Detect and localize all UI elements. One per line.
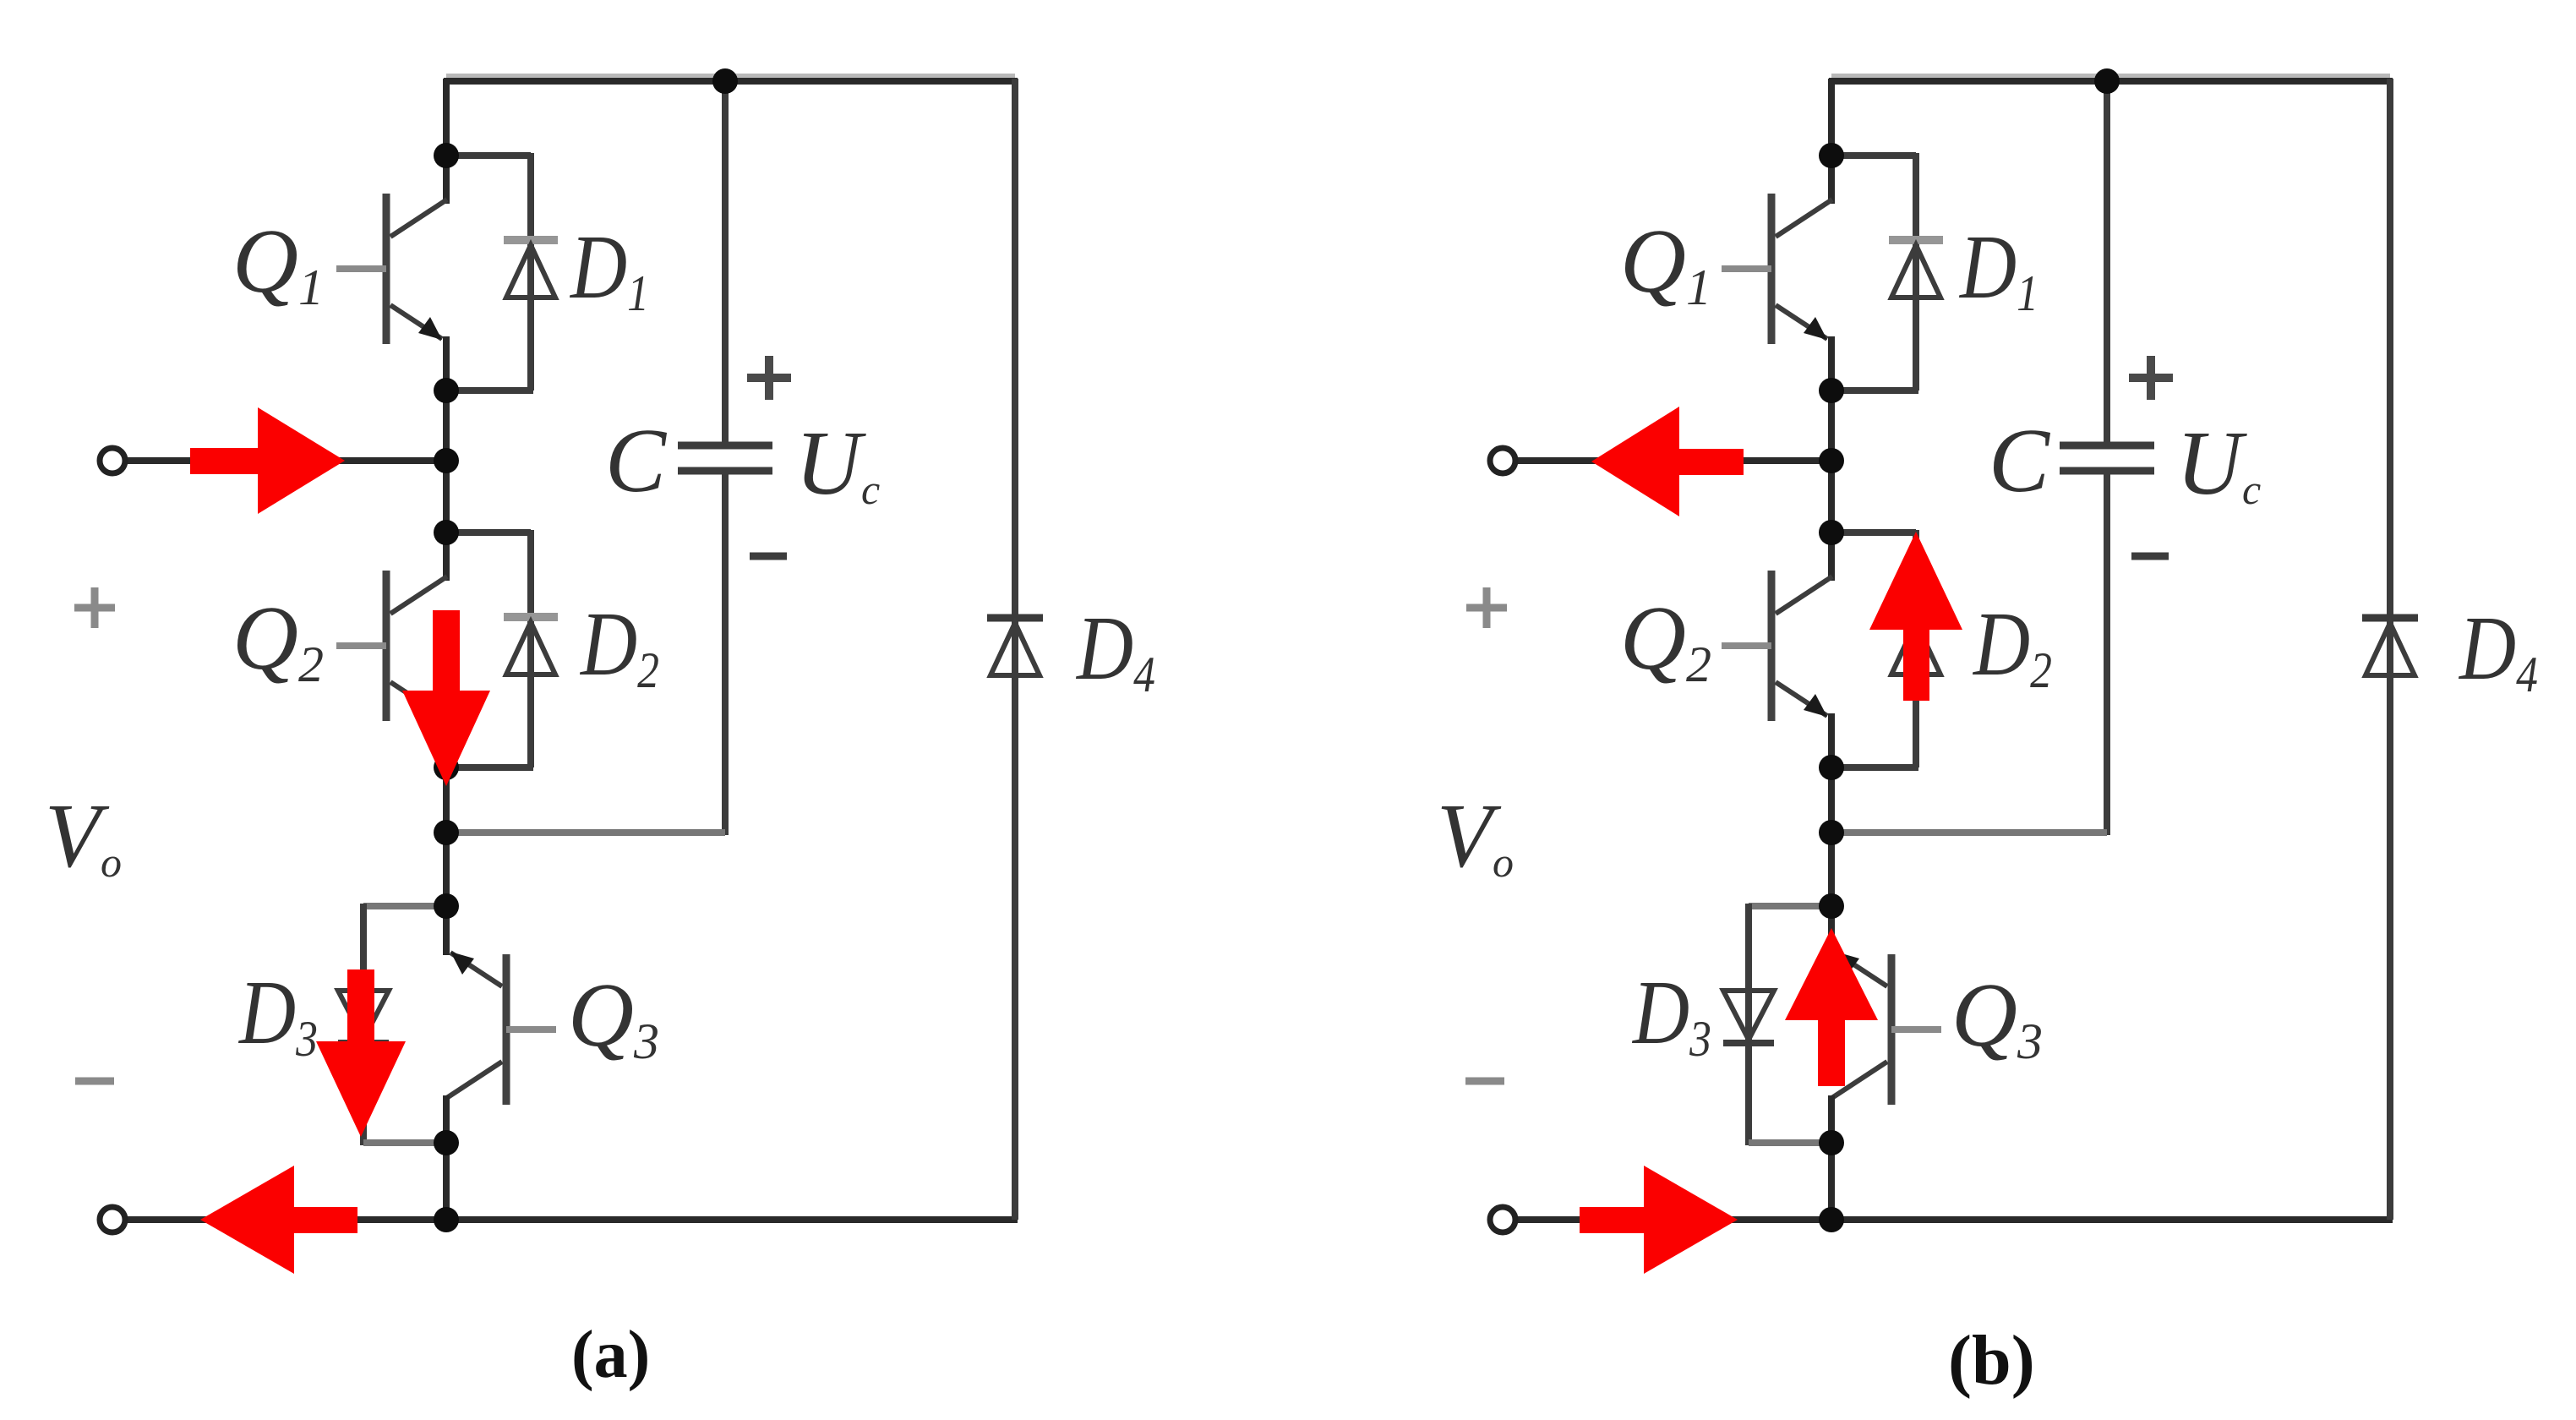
wire D2 bottom stub [446,764,533,771]
current arrow through Q3 (upward) [1785,928,1878,1086]
wire bottom rail [1515,1216,2393,1223]
transistor Q1 emitter slant [390,305,442,340]
transistor Q1 base lead [336,265,386,272]
current arrow input (leftward) [1591,407,1744,516]
wire bottom rail [125,1216,1018,1223]
wire trunk upper [443,79,450,156]
label Uc [795,413,880,514]
wire D1 bottom stub [1831,387,1918,394]
wire trunk capnode-Q3 [443,833,450,906]
wire input lead [1515,457,1831,464]
label C [605,411,668,511]
capacitor minus sign [2131,553,2169,560]
diode D1 symbol [504,240,558,298]
diode D3 symbol [1723,991,1774,1043]
node Q1 collector [434,143,459,168]
wire D3 bottom stub [363,1139,446,1146]
transistor Q2 collector slant [390,576,447,614]
transistor Q2 emitter slant [390,682,442,717]
capacitor minus sign [750,553,787,560]
transistor Q2 base lead [1722,642,1771,649]
svg-text:(b): (b) [1948,1321,2035,1400]
label D1 [569,216,649,321]
transistor Q2 collector slant [1776,576,1832,614]
output plus sign [74,587,115,628]
wire trunk input-Q2 [443,461,450,532]
output terminal [1490,1207,1515,1232]
wire input lead [125,457,446,464]
label Q1 [232,211,324,315]
node Q2 emitter [1819,755,1844,780]
transistor Q2 emitter slant [1776,682,1827,717]
capacitor plus sign [2129,356,2173,400]
node Q2 collector [434,520,459,545]
capacitor C top lead [2104,81,2110,445]
wire D3 bottom stub [1749,1139,1831,1146]
transistor Q1 emitter wire [443,336,450,390]
svg-text:C: C [605,411,668,511]
svg-text:C: C [1989,411,2051,511]
wire trunk Q2-capnode [443,767,450,833]
output plus sign [1466,587,1507,628]
node bottom junction [1819,1207,1844,1232]
capacitor C plates [2060,445,2154,471]
label Vo [45,786,122,887]
wire trunk Q2-capnode [1828,767,1835,833]
caption (a) [571,1318,650,1392]
label Uc [2176,413,2261,514]
wire D2 top stub [446,530,531,767]
label D2 [1972,593,2052,698]
node Q3 collector [434,1130,459,1155]
wire trunk capnode-Q3 [1828,833,1835,906]
wire D3 top stub [363,904,446,1145]
label D4 [2458,597,2538,702]
label D3 [1631,961,1711,1067]
wire D1 top stub [446,153,531,390]
input terminal [1490,448,1515,473]
wire top rail highlight [446,74,1015,79]
transistor Q1 bar [383,194,390,344]
transistor Q3 collector slant [445,1062,502,1099]
transistor Q1 collector wire [443,156,450,204]
wire top rail [1829,78,2393,85]
wire trunk input-Q2 [1828,461,1835,532]
caption (b) [1948,1321,2035,1400]
wire trunk Q1-input [443,390,450,461]
transistor Q3 collector slant [1831,1062,1887,1099]
transistor Q1 collector slant [390,199,447,237]
wire D3 top stub [1749,904,1831,1145]
transistor Q1 base lead [1722,265,1771,272]
diode D4 symbol [987,618,1043,675]
transistor Q1 collector wire [1828,156,1835,204]
diode D4 symbol [2362,618,2418,675]
current arrow through D3 (downward) [316,969,406,1137]
node Q2 collector [1819,520,1844,545]
node Q3 collector [1819,1130,1844,1155]
diode D3 symbol [338,991,389,1043]
transistor Q2 base lead [336,642,386,649]
current arrow output (rightward) [1580,1166,1738,1274]
node Q1 emitter [1819,378,1844,403]
current arrow input (rightward) [190,407,345,514]
wire D4 branch [2387,79,2393,1220]
label Q3 [568,965,659,1069]
transistor Q3 emitter slant [450,952,502,986]
wire capacitor to trunk [446,829,725,836]
label Q3 [1951,965,2043,1069]
label Q2 [232,588,324,692]
node Q3 emitter [434,893,459,919]
wire capacitor to trunk [1831,829,2107,836]
node capacitor bottom junction [434,820,459,845]
transistor Q2 collector wire [1828,532,1835,581]
capacitor plus sign [747,356,791,400]
wire trunk Q3-bottom [1828,1143,1835,1220]
transistor Q1 emitter wire [1828,336,1835,390]
transistor Q2 emitter wire [443,713,450,767]
label C [1989,411,2051,511]
transistor Q3 base lead [506,1026,556,1033]
label D2 [579,593,659,698]
output minus sign [1465,1078,1504,1085]
wire top rail [444,78,1018,85]
output minus sign [75,1078,114,1085]
wire trunk upper [1828,79,1835,156]
transistor Q3 collector wire [1828,1095,1835,1143]
capacitor C bottom lead [2104,471,2110,835]
current arrow output (leftward) [200,1166,357,1274]
node input junction [434,448,459,473]
transistor Q3 bar [503,954,510,1105]
svg-text:(a): (a) [571,1318,650,1392]
output terminal [100,1207,125,1232]
transistor Q2 collector wire [443,532,450,581]
node Q1 emitter [434,378,459,403]
label Q2 [1620,588,1711,692]
diode D2 symbol [504,617,558,674]
node Q3 emitter [1819,893,1844,919]
transistor Q3 emitter wire [443,906,450,955]
label Q1 [1620,211,1711,315]
transistor Q1 bar [1768,194,1776,344]
wire D4 branch [1012,79,1018,1220]
capacitor C plates [678,445,772,471]
node input junction [1819,448,1844,473]
current arrow through Q2 (downward) [402,610,490,786]
node bottom junction [434,1207,459,1232]
capacitor C top lead [722,81,729,445]
node capacitor bottom junction [1819,820,1844,845]
wire top rail highlight [1831,74,2390,79]
transistor Q3 collector wire [443,1095,450,1143]
wire D2 top stub [1831,530,1916,767]
input terminal [100,448,125,473]
diode D2 symbol [1889,617,1943,674]
wire trunk Q3-bottom [443,1143,450,1220]
label D4 [1075,597,1155,702]
transistor Q1 emitter slant [1776,305,1827,340]
label D3 [237,961,318,1067]
wire trunk Q1-input [1828,390,1835,461]
transistor Q3 base lead [1891,1026,1941,1033]
transistor Q2 emitter wire [1828,713,1835,767]
node top capacitor junction [712,68,738,94]
node top capacitor junction [2094,68,2120,94]
wire D1 top stub [1831,153,1916,390]
transistor Q3 bar [1888,954,1896,1105]
label Vo [1437,786,1514,887]
transistor Q1 collector slant [1776,199,1832,237]
node Q1 collector [1819,143,1844,168]
transistor Q3 emitter slant [1836,952,1887,986]
wire D1 bottom stub [446,387,533,394]
label D1 [1958,216,2038,321]
node Q2 emitter [434,755,459,780]
transistor Q2 bar [383,571,390,721]
transistor Q3 emitter wire [1828,906,1835,955]
transistor Q2 bar [1768,571,1776,721]
diode D1 symbol [1889,240,1943,298]
current arrow through D2 (upward) [1869,532,1962,701]
wire D2 bottom stub [1831,764,1918,771]
capacitor C bottom lead [722,471,729,835]
